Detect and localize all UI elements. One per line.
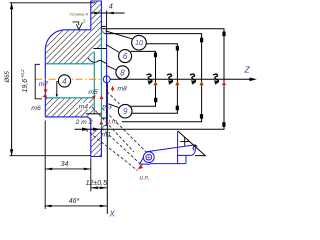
Z axis arrowhead <box>250 78 257 82</box>
svg-text:8: 8 <box>120 68 125 77</box>
workpiece outline: left face, fillet, hub top edge <box>45 30 91 117</box>
tool path A direction arrows <box>82 128 89 131</box>
balloon 9 leader <box>109 104 119 108</box>
svg-text:4: 4 <box>109 4 113 11</box>
hatched section: hub upper wall and flange upper part <box>45 1 101 64</box>
svg-text:46*: 46* <box>69 198 80 205</box>
dimension 12±0,5 <box>91 187 107 189</box>
svg-text:и.т.: и.т. <box>107 119 119 126</box>
dimension 4: extension line <box>106 11 108 34</box>
holder cross mark <box>180 137 189 146</box>
Z axis <box>110 78 255 80</box>
machined contour (teal): bore end face <box>93 52 95 114</box>
blue dashed micro move at m6 <box>44 93 46 98</box>
dimension 34 <box>45 168 91 170</box>
svg-text:Z: Z <box>244 65 251 75</box>
balloon 4 <box>58 75 70 87</box>
svg-text:19,6: 19,6 <box>22 79 29 93</box>
svg-text:Ø65: Ø65 <box>5 70 11 83</box>
svg-text:4: 4 <box>62 77 67 86</box>
workpiece outline: flange lower <box>45 117 101 157</box>
balloon 10 <box>132 35 147 50</box>
dashed tool position lines <box>86 92 152 171</box>
dimension 19,6 bracket <box>35 64 42 99</box>
red direction arrows on verticals below axis <box>154 82 225 86</box>
extension line at flange left face <box>90 158 92 192</box>
left overall diameter dimension line <box>11 3 13 155</box>
centerline (orange dash-dot) <box>35 78 103 80</box>
holder notch <box>193 146 197 151</box>
svg-text:m5: m5 <box>88 89 98 96</box>
svg-text:10: 10 <box>135 40 143 47</box>
dimension 19,6 text (rotated) <box>20 69 29 93</box>
flange face stub line <box>101 26 106 28</box>
balloon 6 <box>119 50 132 63</box>
dimension 4: line and arrows <box>91 12 125 14</box>
original hole upper edge <box>94 48 107 50</box>
tool path D from balloon 6 <box>130 51 155 106</box>
svg-text:12±0,5: 12±0,5 <box>86 180 107 187</box>
top extension line <box>10 2 96 4</box>
balloon 9 <box>118 104 132 118</box>
machined contour (teal): bore top edge <box>46 63 95 65</box>
X axis <box>106 83 108 214</box>
svg-text:m4: m4 <box>79 104 89 111</box>
hatched section: flange below hole <box>91 129 102 157</box>
red move arrows at part <box>43 87 114 124</box>
svg-text:m8: m8 <box>117 85 127 92</box>
tool path C from balloon 10 <box>132 44 178 114</box>
svg-text:+0,2: +0,2 <box>20 69 25 78</box>
balloon 4 leader <box>57 82 59 96</box>
break wavy line <box>88 58 107 64</box>
workpiece outline: boss with chamfers <box>105 34 107 126</box>
surface finish symbol <box>73 22 83 30</box>
diameter text (rotated) <box>5 70 11 83</box>
boss chamfer lines (teal) <box>101 31 104 129</box>
svg-text:и.п.: и.п. <box>140 176 150 182</box>
svg-text:2 m 2: 2 m 2 <box>75 119 93 126</box>
svg-text:Установ A: Установ A <box>70 12 89 17</box>
svg-text:m6: m6 <box>31 105 41 112</box>
tool path A: top horizontal, right vertical, bottom return <box>75 29 225 129</box>
machined contour (teal): bore bottom edge <box>46 97 95 99</box>
path node squares <box>222 32 225 37</box>
tool insert screw <box>143 152 154 163</box>
machined contour (teal): faced flange surface <box>100 31 102 129</box>
hatched section: hub lower wall and flange lower part <box>45 98 94 123</box>
dimension 46* <box>45 205 107 207</box>
svg-text:6: 6 <box>123 52 128 61</box>
coordinate origin marker <box>103 76 110 83</box>
cutting tool: body <box>140 131 196 164</box>
balloon 10 leader <box>106 31 133 39</box>
svg-text:m7: m7 <box>39 81 49 88</box>
extension line at part left face <box>44 121 46 209</box>
tool path B <box>105 34 202 122</box>
workpiece outline: flange upper <box>91 1 102 31</box>
original hole lower edge <box>86 113 102 115</box>
balloon 8 leader <box>106 65 116 70</box>
red arrow at tool tip <box>139 164 143 169</box>
svg-text:X: X <box>109 210 116 219</box>
tool holder fin <box>178 131 206 156</box>
axis point glyphs with direction ticks <box>147 74 219 83</box>
m2 level line <box>101 117 107 119</box>
balloon 6 leader <box>106 45 119 53</box>
bottom extension line <box>10 155 91 157</box>
balloon 8 <box>116 66 129 79</box>
svg-text:9: 9 <box>123 107 128 116</box>
svg-text:34: 34 <box>61 161 69 168</box>
